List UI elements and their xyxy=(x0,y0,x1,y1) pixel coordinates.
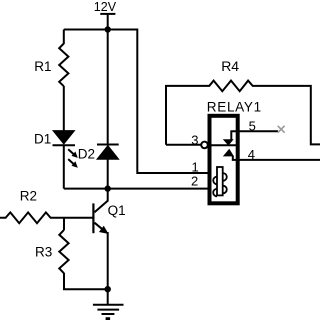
wire pin 3 from R4 xyxy=(166,144,201,146)
wire R1 to D1 xyxy=(63,86,65,131)
relay coil xyxy=(213,167,227,196)
svg-text:1: 1 xyxy=(192,160,199,175)
resistor R2 xyxy=(0,212,93,223)
relay contact to pin 4 xyxy=(224,150,320,160)
svg-text:D1: D1 xyxy=(34,131,51,146)
wire R3 to ground row xyxy=(64,273,108,289)
svg-text:2: 2 xyxy=(191,174,198,189)
svg-text:R4: R4 xyxy=(221,58,239,74)
power rail bar xyxy=(100,13,115,15)
svg-text:D2: D2 xyxy=(78,146,95,161)
svg-text:4: 4 xyxy=(248,147,255,162)
wire top bus xyxy=(64,29,138,31)
svg-text:R3: R3 xyxy=(35,245,52,260)
svg-text:R1: R1 xyxy=(34,59,51,74)
relay contact to pin 5 xyxy=(224,131,278,145)
wire D1 to node row xyxy=(63,145,65,189)
wire bus right branch to relay pin 1 xyxy=(137,29,207,174)
diode D2 xyxy=(97,145,119,160)
wire bus to R1 xyxy=(63,30,65,45)
LED arrows of D1 xyxy=(68,149,78,167)
svg-text:3: 3 xyxy=(191,133,198,148)
svg-text:Q1: Q1 xyxy=(108,203,126,218)
no-connect X on pin 5 xyxy=(278,126,285,133)
ground xyxy=(93,289,124,320)
junction dot 12V bus xyxy=(105,26,111,32)
svg-text:R2: R2 xyxy=(20,188,37,203)
svg-text:12V: 12V xyxy=(94,0,117,14)
relay RELAY1 box xyxy=(210,116,238,204)
wire node row to relay pin 2 xyxy=(64,188,208,190)
junction dot collector node xyxy=(105,185,111,191)
relay pin 3 circle xyxy=(201,142,208,149)
svg-text:5: 5 xyxy=(249,119,256,134)
wire emitter to ground row xyxy=(107,232,109,289)
junction dot ground node xyxy=(105,286,111,292)
transistor Q1 xyxy=(93,189,107,234)
resistor R4 xyxy=(166,81,320,145)
wire 12V stem xyxy=(107,14,109,30)
svg-text:RELAY1: RELAY1 xyxy=(207,100,262,115)
diode D1 xyxy=(53,131,76,146)
resistor R3 xyxy=(59,230,68,273)
wire base node to R3 xyxy=(63,218,65,230)
wire D2 to node xyxy=(107,159,109,188)
relay common line xyxy=(208,144,237,146)
wire bus to D2 xyxy=(107,30,109,144)
resistor R1 xyxy=(59,44,68,87)
